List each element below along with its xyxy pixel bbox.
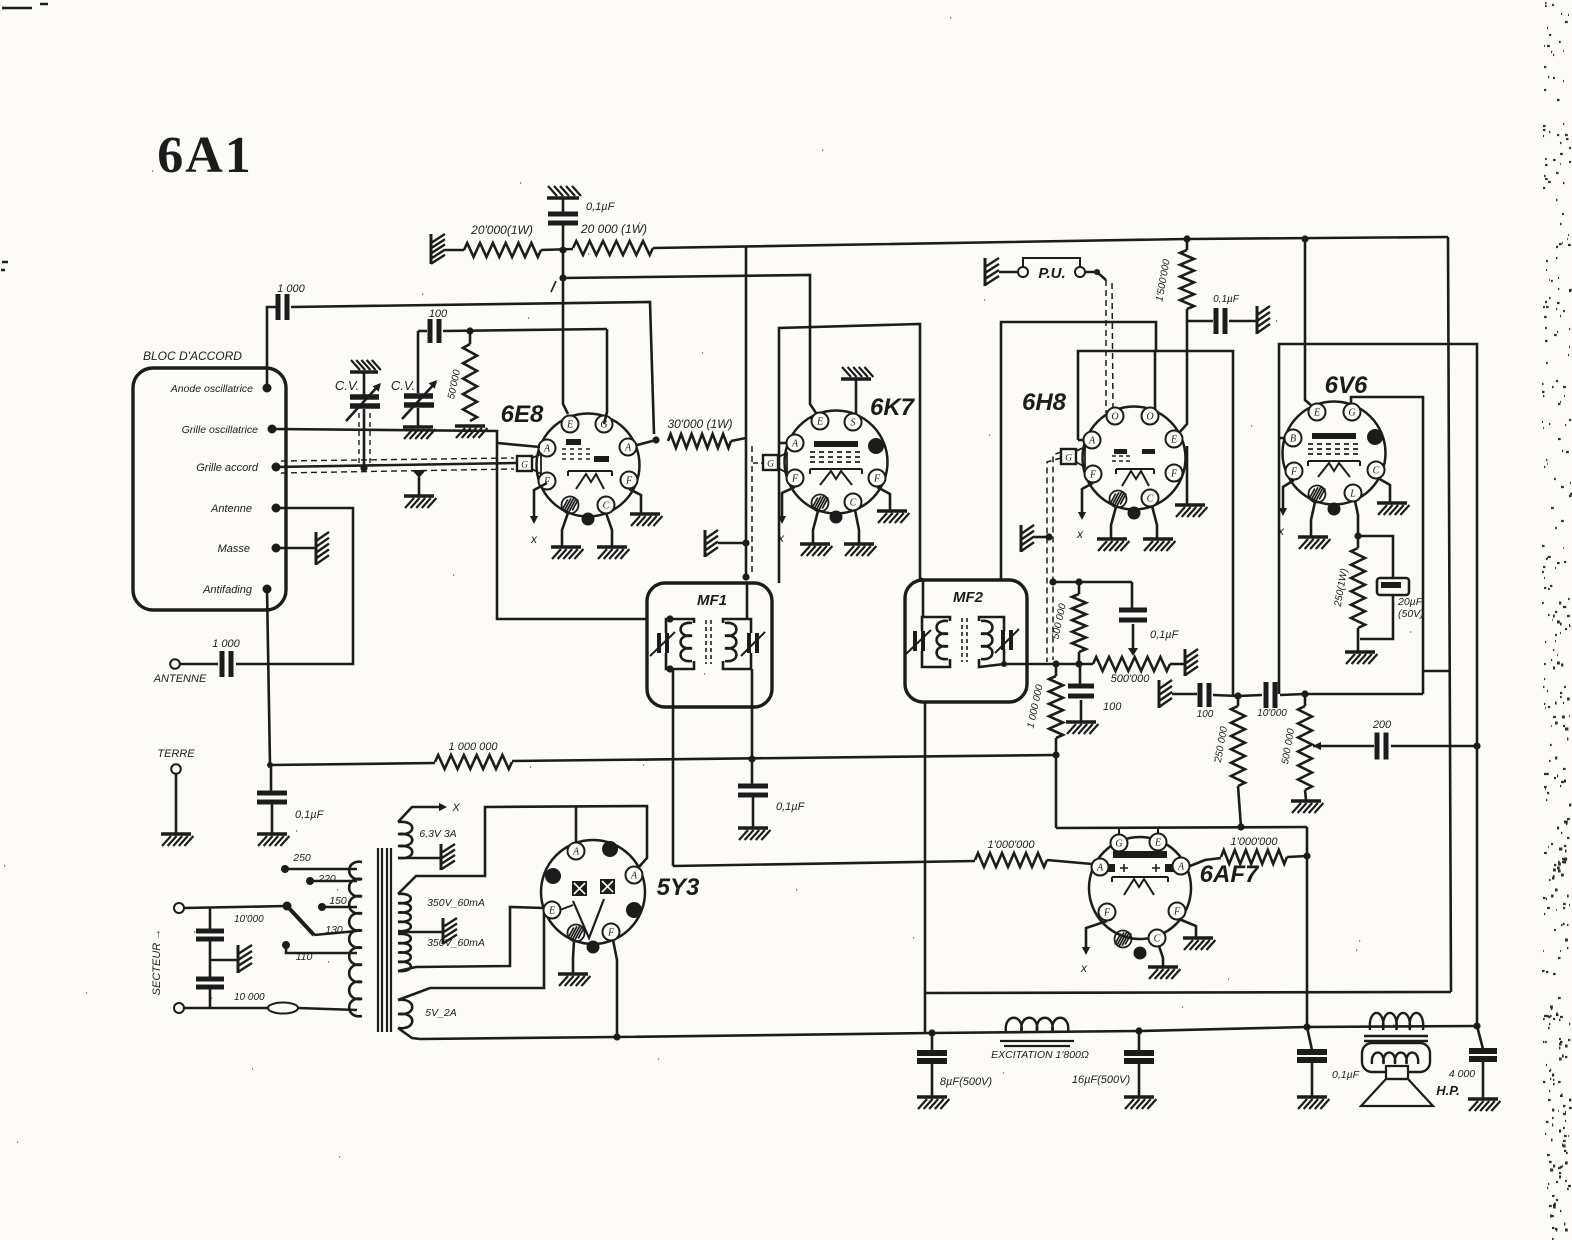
wire C11 to node <box>1213 695 1238 696</box>
wire 6V6 hatched ground <box>1311 502 1315 536</box>
wire CV2 to ground <box>417 408 420 426</box>
node 200 line <box>1473 742 1480 749</box>
MF1 primary coil <box>681 623 692 661</box>
wire C17 ground <box>1138 1061 1141 1096</box>
svg-text:350V_60mA: 350V_60mA <box>427 897 485 909</box>
tube 6V6 interior <box>1312 433 1356 439</box>
pin metal 6K7 <box>868 438 884 454</box>
svg-text:A: A <box>572 846 580 857</box>
svg-text:L: L <box>1349 488 1356 499</box>
MF2 primary coil <box>937 621 948 659</box>
wire C12 to node <box>1280 694 1305 695</box>
svg-text:1 000: 1 000 <box>277 283 305 295</box>
svg-text:0,1µF: 0,1µF <box>1150 629 1180 641</box>
svg-text:C: C <box>1373 465 1380 476</box>
stray tick mark <box>551 281 556 292</box>
AVC line left <box>270 763 435 765</box>
pin C 6K7 <box>845 494 862 511</box>
winding 350V upper <box>398 894 411 931</box>
wire 6H8 A to box <box>1078 439 1083 442</box>
svg-text:F: F <box>1290 466 1298 477</box>
node bus speaker <box>1473 1022 1480 1029</box>
MF2 secondary tuning cap <box>1003 630 1011 650</box>
wire 6.3V bottom ground <box>398 857 441 860</box>
ground 6K7 right <box>844 542 874 545</box>
wire 6H8 outer loop <box>1001 322 1156 580</box>
wire to C11 <box>1172 693 1197 696</box>
x arrow 6H8 <box>1082 483 1093 514</box>
wire HT bottom to 5Y3 <box>398 907 544 971</box>
ground 6H8 left <box>1097 537 1127 540</box>
capacitor C1 0.1uF <box>548 214 578 223</box>
wire R10 to box <box>1287 856 1307 857</box>
svg-text:200: 200 <box>1372 719 1392 731</box>
svg-text:MF1: MF1 <box>697 592 727 609</box>
svg-text:(50V): (50V) <box>1398 608 1424 620</box>
capacitor C11 100 <box>1200 683 1209 707</box>
svg-text:20'000(1W): 20'000(1W) <box>470 223 533 237</box>
wire O-right drop <box>1154 351 1157 410</box>
pin F-left 6H8 <box>1085 466 1102 483</box>
node R3 top <box>1183 235 1190 242</box>
svg-text:x: x <box>530 532 538 546</box>
resistor R7 500000 vertical <box>1078 582 1081 594</box>
wire det top line <box>1053 581 1132 584</box>
svg-text:F: F <box>791 473 799 484</box>
MF2 wiring left <box>922 617 950 631</box>
transformer primary winding <box>349 862 362 1017</box>
pin C 6V6 <box>1368 462 1385 479</box>
node det top <box>1049 578 1056 585</box>
ground 6K7 left <box>800 542 830 545</box>
pin F-right 6H8 <box>1166 465 1183 482</box>
node cathode <box>1354 532 1361 539</box>
svg-text:16µF(500V): 16µF(500V) <box>1072 1074 1131 1086</box>
wire ground to C1 <box>562 198 565 212</box>
svg-text:E: E <box>1313 407 1320 418</box>
pin A-left 6AF7 <box>1092 859 1109 876</box>
svg-text:30'000 (1W): 30'000 (1W) <box>668 417 733 431</box>
svg-text:A: A <box>630 870 638 881</box>
svg-text:x: x <box>1076 527 1084 541</box>
output transformer primary <box>1370 1013 1423 1030</box>
x arrow 6V6 <box>1283 480 1294 510</box>
pin E 6H8 <box>1166 431 1183 448</box>
transformer MF1 outline <box>647 583 772 707</box>
wire 6E8 screen riser <box>604 329 607 424</box>
wire R9 to A pin <box>1047 860 1092 864</box>
wire MF1 top link <box>746 583 749 619</box>
wire grille-osc to 6E8 <box>272 429 647 619</box>
svg-text:G: G <box>1348 407 1355 418</box>
svg-text:F: F <box>625 475 633 486</box>
transformer MF2 outline <box>905 580 1027 702</box>
pin E 6E8 <box>562 416 579 433</box>
svg-text:Anode oscillatrice: Anode oscillatrice <box>170 383 253 395</box>
wire 6AF7 E stem <box>1157 828 1159 835</box>
ground C6 <box>738 826 768 829</box>
node 250k top <box>1234 692 1241 699</box>
tube 5Y3 interior <box>572 881 587 896</box>
svg-text:1 000: 1 000 <box>212 638 240 650</box>
capacitor C7 0.1uF det <box>1131 582 1134 608</box>
svg-text:O: O <box>1111 411 1118 422</box>
MF1 wiring right <box>723 619 751 633</box>
resistor R6 1000000 AVC <box>435 755 512 769</box>
pin S 6K7 <box>845 414 862 431</box>
tube 6H8 interior <box>1114 449 1127 454</box>
wire 5V bottom to bus <box>398 1028 420 1039</box>
pin hatched 6K7 <box>812 495 829 512</box>
svg-text:0,1µF: 0,1µF <box>586 201 616 213</box>
svg-text:A: A <box>624 442 632 453</box>
wire line2 left segment <box>418 330 427 333</box>
wire CV1 bottom to grid line <box>363 409 366 468</box>
pin hatched 6H8 <box>1110 491 1127 508</box>
pin F-left 6AF7 <box>1099 904 1116 921</box>
terminal P.U. left <box>1018 267 1028 277</box>
svg-text:S: S <box>851 417 856 428</box>
svg-text:6E8: 6E8 <box>501 401 544 428</box>
wire MF2 left drop <box>922 581 925 617</box>
wire C13 to right vertical <box>1391 745 1477 748</box>
wire P.U. tap <box>1085 272 1106 280</box>
ground C8 <box>1066 720 1096 723</box>
ground 5Y3 <box>558 972 588 975</box>
node 250k drop <box>1237 823 1244 830</box>
pin E 6V6 <box>1309 404 1326 421</box>
MF1 primary tuning cap <box>659 633 667 653</box>
ground C5 <box>257 832 287 835</box>
tuner block outline <box>133 368 286 610</box>
tube 6V6 envelope <box>1283 402 1386 505</box>
svg-text:100: 100 <box>1103 701 1122 713</box>
wire C1 to top bus junction <box>562 223 565 250</box>
tube 6E8 envelope <box>537 414 640 517</box>
wire anode-osc riser <box>267 307 276 388</box>
resistor R11 250(1W) <box>1357 536 1360 548</box>
svg-text:6H8: 6H8 <box>1022 389 1067 416</box>
capacitor C16 8uF <box>931 1033 934 1051</box>
wire C15 to bottom <box>209 987 212 1008</box>
pin F-left 6K7 <box>787 470 804 487</box>
wire C10 bottom <box>1360 595 1393 639</box>
ground 6V6 left <box>1298 535 1328 538</box>
winding 5V 2A <box>398 1000 412 1028</box>
wire 6K7 C ground <box>855 510 859 543</box>
svg-text:250: 250 <box>292 852 311 864</box>
ground 6H8 right <box>1143 537 1173 540</box>
chassis ground mains <box>210 959 238 962</box>
svg-text:100: 100 <box>1197 709 1214 720</box>
svg-text:20 000 (1W): 20 000 (1W) <box>580 222 647 236</box>
wire shield ground <box>718 542 746 545</box>
svg-text:A: A <box>791 438 799 449</box>
wire mains bottom <box>184 1007 262 1010</box>
resistor R8 1000000 vertical <box>1055 664 1058 676</box>
ground 6AF7 C <box>1148 965 1178 968</box>
grid cap 6K7 <box>763 455 778 470</box>
svg-text:x: x <box>1277 524 1285 538</box>
svg-text:x: x <box>777 531 785 545</box>
terminal P.U. right <box>1075 267 1085 277</box>
node CV1 grid line <box>360 464 367 471</box>
node AVC left corner <box>267 762 273 768</box>
wire R4 to B+ riser <box>731 438 746 441</box>
pin F-right 6K7 <box>869 470 886 487</box>
pin A-left 6E8 <box>539 440 556 457</box>
wire line2 to 6E8 G <box>443 329 607 331</box>
shield dash MF1-6K7 link <box>751 446 753 572</box>
wire C6 ground <box>752 795 755 827</box>
wire 6V6 box <box>1279 344 1477 1026</box>
pin F 6V6 <box>1286 463 1303 480</box>
pin A 6H8 <box>1084 432 1101 449</box>
wire 6V6 B to box <box>1279 437 1284 440</box>
wire antenne link <box>236 508 353 664</box>
pin E 6AF7 <box>1150 834 1167 851</box>
shield ground block 6K7 grid <box>704 530 707 557</box>
svg-text:E: E <box>1154 837 1161 848</box>
output transformer secondary <box>1362 1043 1430 1072</box>
wire 5Y3 F to bus <box>613 940 617 1037</box>
wire C18 ground <box>1311 1060 1314 1096</box>
wire C9 to chassis <box>1229 320 1258 323</box>
pin metal1 5Y3 <box>602 841 618 857</box>
wire diode drop 6H8 <box>1178 321 1187 434</box>
svg-text:8µF(500V): 8µF(500V) <box>940 1076 993 1088</box>
wire 6AF7 C ground <box>1159 946 1163 966</box>
svg-text:C: C <box>603 500 610 511</box>
wire 6K7 loop box <box>779 324 925 583</box>
svg-text:C.V.: C.V. <box>335 378 359 393</box>
svg-text:C.V.: C.V. <box>391 378 415 393</box>
pin A-right 6AF7 <box>1173 858 1190 875</box>
wire 5Y3 hatched ground <box>573 941 574 973</box>
grid accord shielded line <box>276 463 516 467</box>
svg-text:6V6: 6V6 <box>1325 372 1368 399</box>
wire B+ bus bottom <box>420 1026 1477 1039</box>
pin hatched 6V6 <box>1309 486 1326 503</box>
svg-text:C: C <box>1147 493 1154 504</box>
resistor R9 1000000 grid <box>975 853 1047 867</box>
capacitor C13 200 <box>1377 733 1386 760</box>
svg-text:20µF: 20µF <box>1397 596 1423 608</box>
resistor R13 500000 pot <box>1304 694 1307 706</box>
wire 6K7 hatched pin ground <box>813 511 818 543</box>
ground 6E8 right <box>597 545 627 548</box>
wire B+ riser to MF1 <box>745 246 748 577</box>
svg-text:C: C <box>1154 933 1161 944</box>
node AVC crossing <box>748 755 755 762</box>
wire screen T-link <box>1423 670 1451 673</box>
svg-text:500'000: 500'000 <box>1111 673 1151 685</box>
capacitor C10 20uF electrolytic <box>1377 578 1409 595</box>
wire mains top <box>184 906 287 908</box>
pin A 6K7 <box>787 435 804 452</box>
capacitor C18 0.1uF output <box>1307 1027 1312 1050</box>
svg-text:10 000: 10 000 <box>234 992 265 1003</box>
wire C8 ground <box>1080 700 1083 721</box>
node 6E8 anode <box>652 436 659 443</box>
switch arm mains <box>287 906 314 935</box>
wire junction down to 6E8 screen <box>563 250 568 414</box>
ground R13 <box>1291 799 1321 802</box>
capacitor C2 1000 <box>278 294 287 320</box>
pin A2 5Y3 <box>626 867 643 884</box>
svg-text:G: G <box>1065 454 1072 464</box>
potentiometer 500000 <box>1093 657 1170 671</box>
wire 6V6 cathode <box>1355 501 1358 536</box>
node shield ground <box>742 539 749 546</box>
svg-text:Masse: Masse <box>218 543 250 555</box>
pin key 5Y3 <box>587 941 600 954</box>
wire 6K7 F-right ground <box>877 487 890 510</box>
capacitor C6 0.1uF MF1 <box>738 786 768 795</box>
capacitor C3 100 <box>430 319 439 343</box>
wire 6AF7 G stem <box>1118 828 1120 836</box>
node bus 0.1 <box>1303 1023 1310 1030</box>
wire grille-osc to A-left <box>497 443 540 447</box>
svg-text:1'000'000: 1'000'000 <box>987 839 1035 851</box>
svg-text:X: X <box>451 802 460 814</box>
svg-text:Grille accord: Grille accord <box>196 462 259 474</box>
svg-text:A: A <box>1177 861 1185 872</box>
pin key 6H8 <box>1128 507 1141 520</box>
ground 6E8 left <box>551 545 581 548</box>
resistor R4 30000(1W) <box>668 434 731 448</box>
node R8 top <box>1052 660 1059 667</box>
tube 6H8 envelope <box>1083 407 1186 510</box>
wire AVC to 6AF7 grid <box>673 861 975 866</box>
pin metal 6V6 <box>1367 429 1383 445</box>
svg-text:F: F <box>873 473 881 484</box>
capacitor C9 0.1uF <box>1216 308 1225 334</box>
MF2 primary tuning cap <box>915 631 923 651</box>
choke EXCITATION <box>1006 1018 1069 1032</box>
capacitor C15 10000 mains bottom <box>196 979 224 987</box>
wire 5Y3 A1 drop <box>575 807 578 843</box>
svg-text:E: E <box>1170 434 1177 445</box>
pin hatched 6AF7 <box>1115 931 1132 948</box>
center tap ground <box>398 931 443 934</box>
svg-text:1'000'000: 1'000'000 <box>1230 836 1278 848</box>
ground C18 <box>1297 1095 1327 1098</box>
tube 6K7 interior <box>814 441 858 447</box>
chassis ground left of R1 <box>430 234 433 264</box>
pin L 6V6 <box>1345 485 1362 502</box>
ground 6E8 F-right <box>630 512 660 515</box>
svg-text:C: C <box>850 497 857 508</box>
pin C 6AF7 <box>1149 930 1166 947</box>
svg-text:220: 220 <box>317 873 336 885</box>
pin hatched 6E8 <box>562 497 579 514</box>
shield ground block 6H8 <box>1020 525 1023 552</box>
screen ground 6K7 <box>841 377 871 380</box>
wire right tall vertical <box>1448 237 1451 992</box>
svg-text:TERRE: TERRE <box>157 748 195 760</box>
svg-text:E: E <box>566 419 573 430</box>
ground CV2 <box>403 425 433 428</box>
pin E 6K7 <box>812 413 829 430</box>
MF1 secondary tuning cap <box>749 633 757 653</box>
pin key 6V6 <box>1328 503 1341 516</box>
svg-text:0,1µF: 0,1µF <box>295 809 325 821</box>
wire 6AF7 box bottom <box>925 992 1451 993</box>
wire 5V top to 5Y3 fil <box>398 911 544 1000</box>
svg-text:0,1µF: 0,1µF <box>1213 294 1240 305</box>
svg-text:H.P.: H.P. <box>1436 1083 1460 1098</box>
chassis ground masse <box>315 532 318 565</box>
ground cathode 6V6 <box>1345 650 1375 653</box>
ground 6AF7 F-right <box>1183 936 1213 939</box>
wire R3 bottom <box>1186 309 1189 321</box>
wire C5 to ground <box>271 802 274 833</box>
tube 6AF7 envelope <box>1089 837 1191 939</box>
wire 6.3V top to X <box>398 807 440 822</box>
svg-text:F: F <box>607 927 615 938</box>
svg-text:O: O <box>1146 411 1153 422</box>
svg-text:E: E <box>816 416 823 427</box>
resistor R3 1500000 vertical <box>1186 239 1189 250</box>
grid cap 6E8 <box>517 456 532 471</box>
pin F-right 6E8 <box>621 472 638 489</box>
wire to C12 <box>1238 695 1262 696</box>
wire MF1 right bottom to C6 <box>751 669 754 784</box>
svg-text:350V_60mA: 350V_60mA <box>427 937 485 949</box>
MF2 wiring right <box>979 617 1004 631</box>
pin metal2 5Y3 <box>545 868 561 884</box>
svg-text:100: 100 <box>429 308 448 320</box>
wire MF2 det out <box>1004 663 1093 666</box>
svg-text:MF2: MF2 <box>953 589 984 606</box>
node AVC right <box>1052 751 1059 758</box>
wire C19 ground <box>1482 1059 1485 1098</box>
pot wiper arrow 200 line <box>1313 742 1321 750</box>
chassis ground 100pF line <box>1158 680 1161 708</box>
pin F-left 6E8 <box>539 473 556 490</box>
tube 5Y3 envelope <box>541 840 645 944</box>
MF2 core <box>961 618 963 662</box>
svg-text:Grille oscillatrice: Grille oscillatrice <box>182 424 259 436</box>
ground above CV1 <box>350 370 378 373</box>
wire 6AF7 box top <box>1056 827 1307 828</box>
fuse <box>268 1003 298 1014</box>
wire C16 ground <box>931 1061 934 1096</box>
svg-text:F: F <box>1103 907 1111 918</box>
ground C17 <box>1124 1095 1154 1098</box>
antenna terminal <box>170 659 180 669</box>
wire R12 to box <box>1238 786 1241 827</box>
pin O-right 6H8 <box>1142 408 1159 425</box>
wire C2 to 6E8 anode node <box>291 302 654 434</box>
node bus 16uF <box>1135 1027 1142 1034</box>
pin hatched 5Y3 <box>568 925 585 942</box>
ground C19 <box>1468 1097 1498 1100</box>
svg-text:SECTEUR →: SECTEUR → <box>151 929 163 996</box>
svg-text:5Y3: 5Y3 <box>657 874 700 901</box>
wire cathode cap link <box>1358 536 1393 578</box>
ground 6K7 F-right <box>877 509 907 512</box>
wire to R1 <box>445 249 464 252</box>
wire hatched pin to ground 6E8 <box>562 513 568 546</box>
ground C16 <box>917 1095 947 1098</box>
wire 6V6 screen feed <box>1351 397 1423 694</box>
wire anode pin to node <box>630 440 656 447</box>
capacitor C19 4000 <box>1477 1026 1483 1049</box>
winding 350V lower <box>398 934 411 971</box>
wire 6V6 plate feed <box>1305 239 1313 407</box>
